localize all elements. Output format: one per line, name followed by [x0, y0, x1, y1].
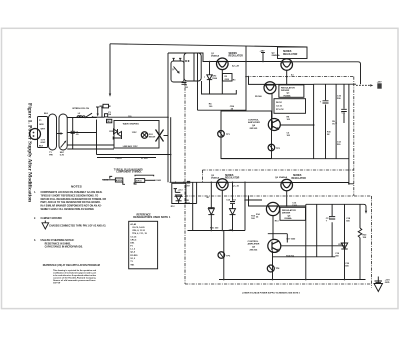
wire [101, 108, 103, 118]
transistor Q2 series regulator [281, 59, 293, 71]
svg-text:CR12: CR12 [338, 244, 344, 246]
bottom rail lower section [219, 279, 366, 281]
svg-text:R6 1K: R6 1K [276, 102, 282, 104]
svg-text:CABINET GROUND: CABINET GROUND [41, 217, 63, 220]
svg-text:AMPLIFIER: AMPLIFIER [248, 243, 260, 246]
oscillator transformer box [184, 53, 201, 81]
svg-text:*: * [204, 76, 205, 80]
svg-text:60HZ: 60HZ [41, 142, 47, 144]
svg-text:115V: 115V [132, 132, 137, 134]
svg-text:LOWER VOLTAGE POWER SUPPLY SCH: LOWER VOLTAGE POWER SUPPLY SCHEMATIC SEE… [242, 292, 301, 295]
svg-text:1.: 1. [34, 192, 36, 194]
dash-dot right vertical [353, 77, 355, 196]
left column lower [223, 231, 225, 280]
svg-text:SERIES: SERIES [229, 53, 238, 55]
ground [377, 277, 379, 284]
svg-text:BLK: BLK [39, 145, 44, 147]
svg-text:SERIES: SERIES [225, 175, 234, 177]
lamp DS1 [141, 132, 147, 138]
svg-text:TIFIED BY SHORT REFERENCE DESI: TIFIED BY SHORT REFERENCE DESIGNATIONS. … [41, 194, 99, 197]
wire chord Q1-Q2 [228, 61, 281, 63]
transistor Q1 series regulator [217, 58, 229, 70]
zener CR10 [210, 182, 212, 208]
svg-text:IN A SIMILAR MANNER COMPONENTS: IN A SIMILAR MANNER COMPONENTS NOT ON AN… [41, 205, 102, 208]
transistor Q9 control amplifier [268, 239, 281, 252]
capacitor C18 column [344, 204, 346, 279]
zener CR2 [209, 62, 211, 75]
svg-text:CONTROL: CONTROL [248, 119, 259, 121]
svg-text:COMPONENTS LOCATED ON ASSEMBLY: COMPONENTS LOCATED ON ASSEMBLY A2 ARE ID… [41, 191, 103, 194]
capacitor C17 column [331, 204, 333, 256]
wire left rail B [170, 117, 172, 182]
svg-text:Figure 1. Power Supply After: Figure 1. Power Supply After Modificatio… [27, 103, 32, 202]
driver column [305, 204, 307, 279]
svg-text:IN346A: IN346A [284, 94, 292, 97]
capacitor C10 column [335, 84, 337, 159]
capacitor bank rail lower [306, 204, 366, 211]
reference designators box [129, 221, 158, 268]
svg-text:C4 .01: C4 .01 [276, 105, 283, 108]
terminal tap +28V [261, 53, 265, 62]
svg-text:117V: 117V [41, 140, 46, 142]
capacitor C16 column [316, 204, 318, 256]
wire Q8 down [268, 216, 288, 243]
wire driver feed [244, 182, 246, 230]
transformer T1 primary [49, 114, 57, 150]
line cord module [38, 117, 48, 148]
svg-text:REGULATOR: REGULATOR [229, 55, 244, 58]
svg-text:REGULATOR: REGULATOR [281, 86, 295, 89]
svg-text:CHASSIS CONNECTED THRU PIN 1 O: CHASSIS CONNECTED THRU PIN 1 OF A2 AND A… [49, 224, 106, 227]
svg-text:RESISTANCE IN OHMS,: RESISTANCE IN OHMS, [45, 242, 71, 245]
wire left rail A [167, 53, 169, 182]
dash-dot lower boundary [185, 196, 372, 288]
svg-text:NE51H: NE51H [149, 137, 156, 139]
svg-text:A1R11: A1R11 [136, 180, 143, 183]
wire drop with arrow [109, 44, 111, 95]
svg-text:DRIVER: DRIVER [282, 213, 291, 215]
svg-text:L1 500: L1 500 [141, 158, 148, 160]
svg-text:REGULATOR: REGULATOR [225, 177, 240, 180]
svg-text:A2 +28: A2 +28 [232, 64, 240, 67]
capacitor C9 column [325, 84, 327, 159]
svg-text:AMPLIFIER: AMPLIFIER [248, 121, 260, 124]
dash-dot left vertical [184, 81, 186, 284]
transformer T1 secondary [59, 114, 67, 150]
svg-text:C1-C5: C1-C5 [130, 236, 137, 238]
ground symbol note [44, 221, 46, 223]
bottom bus upper section [221, 158, 349, 160]
wire Q6 emitter to right [292, 182, 349, 184]
svg-text:SERIES: SERIES [293, 175, 302, 177]
svg-text:REGULATOR: REGULATOR [292, 177, 307, 180]
lamp X [156, 130, 164, 142]
regulator driver label box [279, 85, 304, 97]
diode CR12 [341, 243, 347, 249]
svg-text:DESIGNATORS USED NOTE 1: DESIGNATORS USED NOTE 1 [133, 216, 171, 219]
connector [103, 104, 109, 108]
svg-text:CR5-8: CR5-8 [116, 158, 123, 160]
transistor Q5 series regulator [217, 179, 229, 191]
svg-text:A1R10: A1R10 [116, 179, 123, 182]
chassis dash-dot rail upper [246, 76, 354, 78]
wire [97, 154, 172, 156]
svg-text:+28V: +28V [260, 51, 266, 53]
node arrow [97, 107, 99, 115]
wire driver chord lower [249, 196, 307, 206]
junction cluster [335, 122, 337, 124]
wire [97, 157, 156, 159]
svg-text:INTERLOCK ON: INTERLOCK ON [72, 108, 89, 110]
resistor R2 [221, 70, 223, 94]
svg-text:OBTAIN FULL REFERENCE DESIGNAT: OBTAIN FULL REFERENCE DESIGNATION OF SYM… [41, 198, 107, 201]
svg-text:BLK: BLK [44, 113, 49, 115]
svg-text:2N1305: 2N1305 [250, 249, 258, 251]
wire R4 row [198, 81, 247, 110]
wire driver chord [249, 77, 314, 85]
wire bottom of sub box [202, 81, 237, 94]
svg-text:1 OHM: 1 OHM [155, 180, 162, 182]
svg-text:2N456A: 2N456A [211, 55, 219, 58]
regulator driver label box lower [280, 207, 306, 220]
zener CR8 [176, 195, 182, 201]
wire Q2 emitter to right [292, 62, 361, 84]
svg-text:WHT: WHT [41, 129, 46, 131]
feed vertical [245, 46, 247, 111]
test point TP3 [218, 252, 225, 259]
wire Q9 collector down [272, 251, 274, 280]
series regulator label box [278, 47, 308, 59]
capacitor C1 [72, 118, 74, 132]
wire Q5 emitter down [221, 190, 223, 230]
capacitor bank rail upper [314, 83, 356, 85]
svg-text:6.3V: 6.3V [60, 155, 65, 157]
input filter box lower [172, 183, 186, 203]
svg-text:1977 W: 1977 W [53, 282, 60, 284]
capacitor C11 column [343, 84, 345, 123]
svg-text:CR1-5: CR1-5 [130, 239, 137, 241]
svg-text:2N456A: 2N456A [279, 176, 287, 179]
svg-text:SEC: SEC [60, 152, 65, 154]
test point TP2 [268, 144, 275, 151]
svg-text:2.: 2. [34, 218, 36, 220]
svg-text:SEMBLY HAVE FULL DESIGNATION A: SEMBLY HAVE FULL DESIGNATION AS SHOWN. [41, 208, 95, 211]
resistor R11 symbol [135, 175, 154, 176]
terminal board TB1 [107, 119, 112, 123]
wire secondary mid [67, 132, 96, 134]
svg-text:PRI: PRI [49, 155, 53, 157]
svg-text:GRD: GRD [385, 282, 390, 284]
wire secondary top [67, 117, 97, 119]
fuse F1 [105, 114, 108, 117]
svg-text:IN346A: IN346A [285, 217, 293, 220]
svg-text:SERIES: SERIES [283, 51, 292, 53]
wire Q3 down [271, 94, 273, 120]
lower horizontal wire [172, 201, 197, 204]
svg-text:CR6, 8, 11-12: CR6, 8, 11-12 [132, 230, 145, 232]
inductor L2 [77, 116, 85, 118]
capacitor C7 [182, 83, 187, 85]
capacitor C8 column [313, 84, 315, 159]
svg-text:CONTROL: CONTROL [248, 241, 259, 243]
transistor Q6 series regulator [281, 179, 293, 191]
zener CR11 [232, 182, 234, 208]
transistor Q4 control amplifier [268, 119, 280, 131]
top feed rail [110, 44, 307, 47]
diode CR6 [118, 132, 122, 137]
svg-text:UNLESS OTHERWISE NOTED:: UNLESS OTHERWISE NOTED: [41, 240, 75, 242]
wire jog to Q1 [201, 53, 216, 62]
wire Q4 emitter [280, 124, 314, 126]
svg-text:2N456A: 2N456A [272, 54, 280, 57]
resistor network box [274, 99, 306, 114]
rectifier assembly box [114, 121, 159, 149]
svg-text:C6-C9, 14-20: C6-C9, 14-20 [132, 226, 145, 229]
svg-text:REGULATOR: REGULATOR [282, 209, 296, 212]
right rail upper [349, 84, 354, 184]
svg-text:LINE ADJ 115V: LINE ADJ 115V [123, 145, 138, 148]
svg-text:+28V: +28V [377, 82, 382, 84]
diode CR5 [114, 129, 118, 134]
transistor Q3 regulator driver [264, 82, 276, 94]
svg-text:COMPONENT SYMBOL: COMPONENT SYMBOL [116, 171, 142, 173]
wire to rails [108, 116, 168, 118]
svg-text:TP4, 6, 7-11, 15: TP4, 6, 7-11, 15 [132, 232, 147, 235]
dash-dot mid rail [202, 170, 353, 182]
test point TP1 [218, 131, 225, 138]
svg-text:NOTES: NOTES [71, 184, 82, 188]
wire Q9 emitter [281, 245, 345, 247]
svg-text:R5 560: R5 560 [255, 96, 263, 98]
svg-text:WAVE SHAPING: WAVE SHAPING [123, 122, 139, 125]
AC plug P1 [30, 129, 41, 140]
lower rail wire [170, 181, 217, 183]
svg-text:A2 +15: A2 +15 [232, 185, 240, 188]
svg-text:DRIVER: DRIVER [281, 90, 290, 92]
oscillator Q7 box [168, 52, 203, 54]
svg-text:R1-R20: R1-R20 [130, 255, 138, 257]
svg-text:REGULATOR: REGULATOR [283, 53, 298, 56]
resistor R20 [359, 204, 361, 228]
svg-text:2N456A: 2N456A [211, 177, 219, 180]
wire Q2 down [286, 70, 288, 84]
output lead +28V [356, 84, 371, 86]
wire chord Q5-Q6 [228, 181, 281, 183]
svg-text:R7 4.7K: R7 4.7K [276, 108, 284, 111]
svg-text:15K: 15K [363, 237, 367, 239]
wire secondary bottom [67, 148, 114, 150]
svg-text:+15V: +15V [385, 279, 391, 281]
transistor Q8 regulator driver [266, 202, 279, 215]
svg-text:GRN: GRN [39, 124, 44, 126]
wire Q6 down [286, 191, 288, 206]
wire [96, 120, 98, 155]
svg-text:2N1305: 2N1305 [250, 128, 258, 130]
svg-text:PART, ADD A2 TO THE DESIGNATOR: PART, ADD A2 TO THE DESIGNATOR ON THE BO… [41, 201, 101, 204]
control amplifier box [221, 111, 272, 159]
switch S1 [85, 113, 92, 117]
test point TP4 [267, 265, 274, 272]
svg-text:A1,A2: A1,A2 [130, 223, 137, 226]
svg-text:REPRINTED (US) AT RECAPITUL: REPRINTED (US) AT RECAPITULATION PROGRAM [43, 264, 100, 267]
svg-text:3.: 3. [34, 240, 36, 242]
svg-text:CAPACITANCE IN MICROFARADS.: CAPACITANCE IN MICROFARADS. [45, 246, 84, 249]
